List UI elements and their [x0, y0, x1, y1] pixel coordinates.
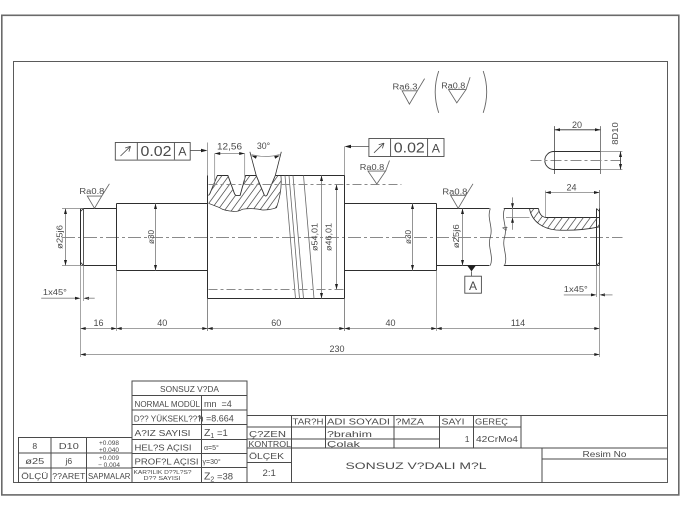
- svg-text:230: 230: [329, 344, 344, 354]
- svg-text:α=5°: α=5°: [204, 444, 219, 452]
- dimension dia25j6 right: [452, 209, 464, 266]
- dimension 4 (keyway depth): [501, 197, 530, 230]
- worm tooth gap 30deg flank extension lines: [250, 152, 281, 176]
- svg-text:2:1: 2:1: [263, 468, 276, 479]
- keyway local section freehand boundary: [530, 209, 600, 231]
- svg-text:40: 40: [157, 318, 167, 328]
- svg-text:20: 20: [572, 120, 582, 130]
- svg-text:12,56: 12,56: [217, 142, 242, 152]
- keyway side view: end arc and floor line: [530, 209, 600, 231]
- dimension 230 overall: [81, 344, 600, 356]
- dimension dia46,01: [325, 185, 339, 290]
- svg-text:GEREÇ: GEREÇ: [475, 417, 508, 427]
- svg-text:A?IZ SAYISI: A?IZ SAYISI: [135, 428, 191, 438]
- dimension 1x45 chamfer right: [564, 285, 613, 297]
- worm thread cut profile (teeth): [209, 152, 282, 196]
- dimension 20: [555, 120, 601, 174]
- svg-text:114: 114: [511, 318, 525, 328]
- datum A symbol: [465, 266, 482, 294]
- svg-text:1x45°: 1x45°: [43, 288, 67, 297]
- svg-text:?brahim: ?brahim: [327, 429, 372, 439]
- svg-text:??ARET: ??ARET: [52, 471, 86, 481]
- svg-text:Z2 =38: Z2 =38: [204, 470, 233, 483]
- svg-text:ADI SOYADI: ADI SOYADI: [327, 417, 390, 427]
- keyway hatched local section: [530, 209, 600, 231]
- svg-text:+0.098: +0.098: [99, 440, 120, 447]
- svg-text:HEL?S AÇISI: HEL?S AÇISI: [135, 442, 192, 452]
- svg-text:D?? SAYISI: D?? SAYISI: [144, 476, 181, 482]
- worm pitch line top (dash-dot, extends right for Ra mark): [209, 184, 402, 186]
- svg-text:?MZA: ?MZA: [396, 417, 425, 427]
- shaft section 4 (dia30 x40 right): [345, 204, 437, 271]
- svg-text:30°: 30°: [257, 141, 270, 151]
- dimension 12,56 (axial pitch): [215, 142, 245, 184]
- svg-text:SAYI: SAYI: [442, 417, 465, 427]
- worm data table frame: [132, 381, 247, 483]
- svg-text:h =8.664: h =8.664: [199, 413, 234, 423]
- svg-text:8D10: 8D10: [611, 122, 620, 145]
- svg-text:+0.009: +0.009: [99, 455, 120, 462]
- dimension 8D10: [611, 122, 622, 170]
- svg-text:0.02: 0.02: [394, 141, 425, 157]
- svg-text:60: 60: [271, 318, 281, 328]
- svg-text:4: 4: [501, 226, 510, 230]
- surface mark Ra0.8 on worm pitch line: [360, 161, 390, 185]
- worm local section freehand boundary: [209, 176, 282, 212]
- svg-text:SONSUZ V?DALI M?L: SONSUZ V?DALI M?L: [346, 461, 487, 471]
- svg-text:16: 16: [93, 318, 103, 328]
- svg-text:Ra6.3: Ra6.3: [393, 82, 418, 91]
- surface mark (Ra0.8) in parentheses: [435, 71, 487, 113]
- svg-text:Ra0.8: Ra0.8: [360, 163, 385, 172]
- shaft centerline: [62, 237, 623, 239]
- svg-text:A: A: [432, 141, 441, 155]
- svg-text:ÖLÇEK: ÖLÇEK: [249, 451, 284, 461]
- worm data table texts: [134, 384, 234, 484]
- svg-text:TAR?H: TAR?H: [293, 417, 324, 427]
- svg-text:1: 1: [465, 434, 470, 444]
- svg-text:KONTROL: KONTROL: [249, 439, 292, 449]
- keyway top view extension stubs: [601, 152, 623, 170]
- keyway top view end line: [600, 126, 602, 174]
- svg-text:ø46,01: ø46,01: [325, 223, 334, 251]
- dimension 1x45 chamfer left: [41, 266, 94, 302]
- surface mark Ra0.8 on left dia25: [79, 184, 109, 209]
- svg-text:SONSUZ V?DA: SONSUZ V?DA: [160, 384, 219, 394]
- svg-text:42CrMo4: 42CrMo4: [476, 434, 518, 444]
- feature control frame 2 (runout 0.02 A): [345, 139, 445, 157]
- svg-text:ø25j6: ø25j6: [55, 224, 64, 249]
- worm pitch line bottom: [209, 289, 345, 291]
- dimension 30deg (thread angle): [251, 141, 280, 159]
- surface mark Ra0.8 on right dia25: [442, 184, 473, 209]
- worm section outline (dia54.01 x60): [208, 143, 345, 332]
- svg-text:D10: D10: [59, 441, 79, 451]
- svg-text:γ=30°: γ=30°: [203, 458, 221, 466]
- svg-text:Ra0.8: Ra0.8: [79, 187, 104, 196]
- svg-text:ø30: ø30: [147, 230, 156, 244]
- inner border frame: [14, 62, 668, 483]
- svg-text:NORMAL MODÜL: NORMAL MODÜL: [135, 399, 201, 409]
- title block frame: [247, 415, 668, 482]
- svg-text:D?? YÜKSEKL???: D?? YÜKSEKL???: [134, 413, 202, 423]
- worm local section hatch area: [209, 176, 282, 212]
- svg-text:+0.040: +0.040: [99, 447, 120, 454]
- shaft section 2 (dia30 x40): [117, 204, 208, 271]
- title block texts: [249, 417, 627, 479]
- break wavy lines: [489, 209, 506, 266]
- svg-text:SAPMALAR: SAPMALAR: [88, 471, 131, 481]
- svg-text:ø25j6: ø25j6: [452, 224, 461, 249]
- dimension 24 (keyway length): [545, 183, 599, 218]
- svg-text:j6: j6: [64, 456, 72, 466]
- svg-text:24: 24: [566, 183, 576, 193]
- keyway top view slot outline: [545, 152, 601, 170]
- svg-text:0.02: 0.02: [141, 144, 172, 160]
- svg-text:PROF?L AÇISI: PROF?L AÇISI: [135, 457, 199, 467]
- svg-text:Resim No: Resim No: [583, 449, 627, 459]
- feature control frame 1 (runout 0.02 A): [115, 143, 207, 161]
- svg-text:Z1 =1: Z1 =1: [204, 427, 228, 440]
- svg-text:1x45°: 1x45°: [564, 285, 588, 294]
- shaft section 5 (dia25j6 x114 right, with break): [437, 190, 600, 357]
- svg-text:ø25: ø25: [25, 456, 44, 466]
- svg-text:ø54,01: ø54,01: [310, 223, 319, 251]
- svg-text:ÖLÇÜ: ÖLÇÜ: [21, 471, 48, 481]
- worm helix thread lines: [285, 176, 314, 299]
- dimension dia54,01: [310, 176, 323, 299]
- svg-text:ø30: ø30: [404, 230, 413, 244]
- dimension dia30 left: [147, 204, 157, 271]
- svg-text:A: A: [178, 145, 187, 159]
- tolerance table texts: [21, 440, 130, 481]
- svg-text:Ç?ZEN: Ç?ZEN: [249, 429, 286, 439]
- dimension dia25j6 left: [55, 209, 83, 266]
- svg-text:8: 8: [32, 441, 37, 451]
- leader frame 2: [350, 146, 369, 148]
- svg-text:40: 40: [385, 318, 395, 328]
- leader frame 1: [190, 150, 202, 152]
- dimension dia30 right: [404, 204, 414, 271]
- dimension chain 16/40/60/40/114: [81, 266, 600, 358]
- tolerance table frame: [19, 438, 132, 483]
- shaft section 1 (left, dia25j6 x16): [81, 209, 117, 266]
- svg-text:Çolak: Çolak: [327, 439, 361, 449]
- svg-text:A: A: [469, 279, 477, 293]
- surface mark Ra6.3 general: [393, 79, 425, 105]
- keyway top view centerline: [531, 160, 621, 162]
- svg-text:− 0.004: − 0.004: [98, 462, 121, 469]
